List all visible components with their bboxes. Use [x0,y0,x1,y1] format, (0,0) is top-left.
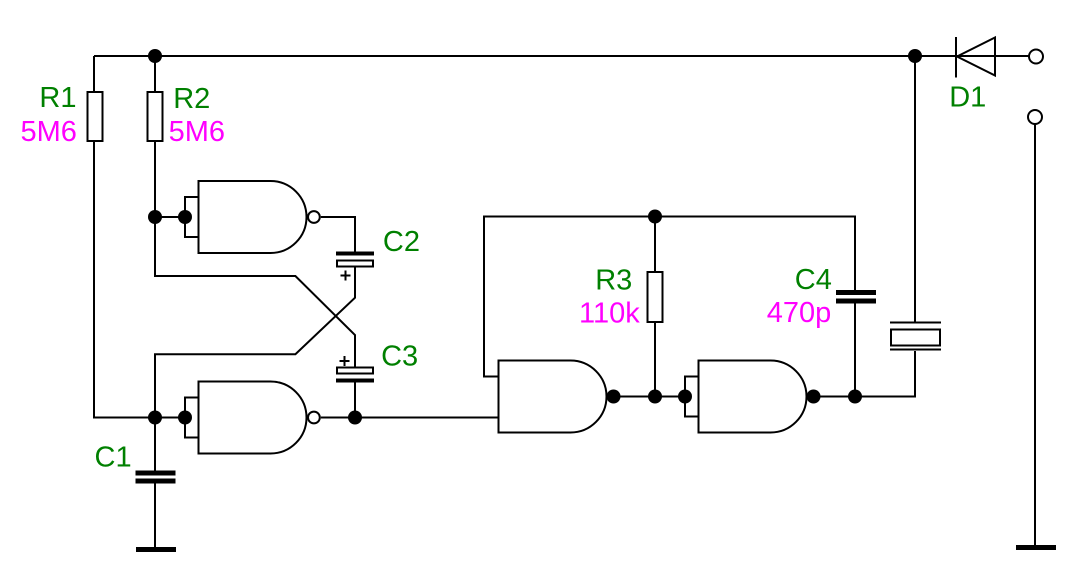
svg-text:R1: R1 [39,82,76,114]
svg-text:C4: C4 [795,264,832,296]
svg-text:C1: C1 [95,442,132,474]
svg-text:110k: 110k [579,298,640,330]
svg-text:R3: R3 [595,265,632,297]
svg-text:470p: 470p [767,297,832,329]
svg-text:5M6: 5M6 [21,116,77,148]
svg-text:5M6: 5M6 [169,116,225,148]
svg-text:D1: D1 [949,81,986,113]
svg-text:C2: C2 [383,226,420,258]
svg-text:R2: R2 [173,83,210,115]
svg-text:C3: C3 [381,341,418,373]
